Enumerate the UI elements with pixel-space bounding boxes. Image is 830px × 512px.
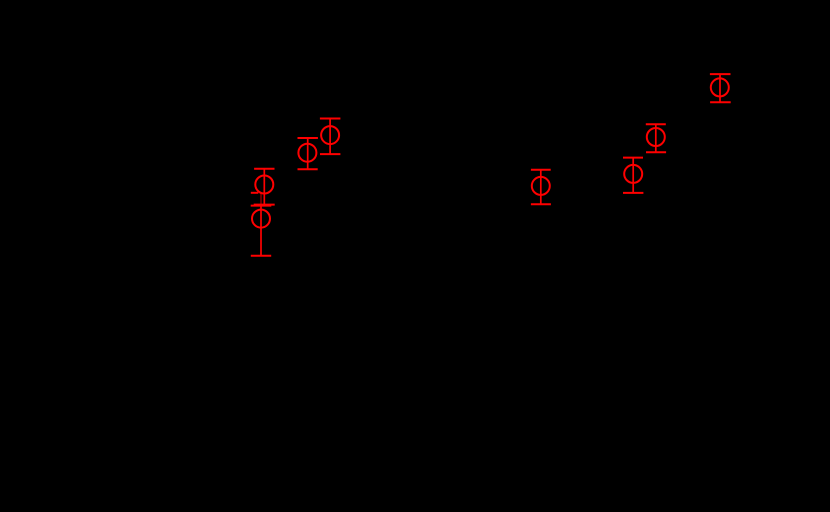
errorbar point R2 bbox=[623, 158, 643, 193]
errorbar point R4 bbox=[710, 74, 731, 102]
errorbar point L2 bbox=[254, 169, 275, 205]
errorbar point L1 (hidden-top series) bbox=[251, 193, 272, 256]
errorbar point R1 bbox=[531, 170, 551, 205]
errorbar point L3 bbox=[298, 138, 318, 169]
errorbar point R3 bbox=[646, 124, 666, 152]
errorbar point L4 bbox=[320, 119, 341, 155]
